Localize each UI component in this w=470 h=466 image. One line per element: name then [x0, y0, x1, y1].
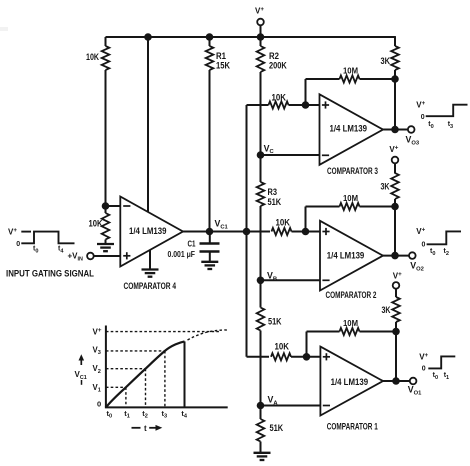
node comp2 feedback/pullup junction [391, 203, 399, 211]
wire comp2 output [383, 255, 409, 257]
svg-text:C1: C1 [188, 240, 196, 249]
label V3 (graph) [93, 345, 101, 356]
svg-text:15K: 15K [216, 60, 230, 70]
node junction rail/R1 [206, 33, 214, 41]
resistor R1 15K [206, 46, 214, 70]
wire 10M to 3K node (comp2) [360, 206, 396, 208]
wire V+ to 3K (comp1) [395, 289, 397, 297]
graph t4 vertical (discharge) [184, 341, 186, 407]
graph V+ dashed level [106, 331, 220, 333]
comp2 plus symbol [322, 228, 329, 235]
wire comp3 output [383, 129, 408, 131]
label t0 (waveform 3) [428, 121, 433, 130]
label 10M (comp1) [343, 319, 358, 328]
wire VC1 to 10K (comp2) [247, 231, 271, 233]
label V+ (comp1 pull-up) [393, 271, 402, 280]
wire 10M to 3K node (comp3) [360, 78, 396, 80]
svg-text:51K: 51K [270, 423, 284, 433]
wire VC1 to C1 [209, 232, 211, 244]
comp3 minus symbol [322, 154, 329, 156]
svg-text:51K: 51K [268, 317, 282, 327]
label 3K (comp1) [382, 305, 391, 315]
wire comp4 ground pin [149, 250, 151, 270]
resistor 10K (lower bias divider) [102, 213, 110, 240]
wire 3K to comp3 output [394, 70, 396, 130]
label 1/4 LM139 (comp1) [331, 377, 369, 388]
resistor 10M (comp1 feedback) [340, 328, 360, 335]
wire to 10M (comp1) [307, 331, 340, 333]
svg-text:COMPARATOR 4: COMPARATOR 4 [124, 281, 177, 292]
graph y-axis [105, 326, 107, 408]
label 0 (graph) [97, 400, 101, 409]
comp4 plus symbol [123, 252, 130, 259]
wire comp2 feedback riser [305, 207, 307, 232]
label t0 (waveform 1) [433, 372, 438, 381]
label 1/4 LM139 (comp3) [330, 124, 368, 135]
wire 10K lower to ground [105, 240, 107, 245]
node comp4 minus input junction [102, 202, 110, 210]
output terminal VO2 [409, 252, 416, 259]
wire 10K to comp1 plus [291, 356, 320, 358]
label 10M (comp3) [343, 67, 358, 76]
wire comp1 output [383, 380, 410, 382]
svg-text:1/4 LM139: 1/4 LM139 [129, 226, 167, 237]
wire R2 to node VC [260, 72, 262, 155]
label t0 (graph) [107, 409, 113, 420]
wire 10M to 3K node (comp1) [360, 331, 397, 333]
label 10K (comp2 input) [276, 218, 291, 228]
wire rail corner to 3K (comp3) [394, 36, 396, 46]
label 0 (waveform 2) [422, 242, 426, 249]
V+ terminal (comp2 pull-up) [392, 157, 399, 164]
node junction rail/R2/V+ terminal [257, 33, 265, 41]
svg-text:1/4 LM139: 1/4 LM139 [327, 251, 365, 262]
wire 10K to comp2 plus [292, 231, 321, 233]
node VC [257, 151, 265, 159]
wire comp4 output to VC1 bus [183, 231, 247, 233]
op-amp comparator 4 (1/4 LM139) [120, 197, 183, 267]
label V+ (waveform 3) [416, 100, 425, 109]
resistor 3K (comp2 pull-up) [391, 173, 399, 199]
svg-text:1/4 LM139: 1/4 LM139 [330, 124, 368, 135]
wire VC to R3 [260, 155, 262, 182]
label t4 (input waveform) [58, 246, 64, 255]
node VA [257, 402, 265, 410]
wire 51K to ground [260, 442, 262, 453]
label 10K (upper) [86, 52, 99, 62]
label 1/4 LM139 (comp4) [129, 226, 167, 237]
graph dashed curve extension [188, 330, 229, 340]
label VO1 [408, 385, 422, 397]
label t2 (waveform 2) [444, 248, 449, 257]
resistor 10K (upper bias divider) [102, 46, 110, 70]
svg-text:10K: 10K [272, 92, 287, 102]
ground (comparator 4) [142, 270, 159, 277]
label V+ (waveform 2) [416, 227, 425, 236]
label 51K (VA-GND) [270, 423, 284, 433]
ground (threshold chain) [254, 453, 271, 460]
comp1 minus symbol [323, 405, 330, 407]
wire bus corner to 10K (comp1) [247, 356, 270, 358]
label t0 (input waveform) [33, 246, 38, 255]
wire comp4 V+ supply pin [147, 37, 149, 212]
wire rail to 10K upper [105, 37, 107, 46]
resistor 3K (comp3 pull-up) [391, 46, 399, 70]
resistor 10K (comp2 input) [272, 228, 292, 235]
resistor 10K (comp1 input) [271, 353, 291, 360]
label t4 (graph) [181, 409, 188, 420]
svg-text:t: t [144, 424, 147, 433]
node VC1 [206, 228, 214, 236]
resistor 10M (comp2 feedback) [340, 203, 360, 210]
output waveform 2 [427, 231, 461, 244]
svg-text:3K: 3K [382, 305, 391, 315]
capacitor C1 0.001uF [200, 244, 220, 252]
label 0 (input waveform) [16, 241, 20, 248]
scan artifact (decorative) [0, 27, 8, 31]
wire VA to comp1 minus [261, 405, 321, 407]
label V+ (top) [255, 6, 264, 15]
op-amp comparator 2 (1/4 LM139) [320, 221, 383, 291]
wire VB to 51K [260, 280, 262, 307]
wire 10K to comp4 minus node [105, 70, 107, 206]
label 0 (waveform 1) [422, 366, 426, 373]
label V+ (waveform 1) [419, 352, 428, 361]
wire VB to comp2 minus [261, 279, 321, 281]
input terminal +VIN [87, 253, 94, 260]
label V+ (graph) [93, 327, 102, 336]
label t1 (graph) [124, 409, 130, 420]
graph t2 dashed vertical [145, 369, 147, 408]
label 3K (comp3) [381, 56, 391, 66]
label 3K (comp2) [381, 181, 390, 191]
label COMPARATOR 2 [326, 290, 377, 301]
label 10K (lower) [89, 219, 103, 229]
svg-text:1/4 LM139: 1/4 LM139 [331, 377, 369, 388]
label 1/4 LM139 (comp2) [327, 251, 365, 262]
label t0 (waveform 2) [430, 248, 435, 257]
node comp2 plus junction [302, 228, 310, 236]
label V+ (comp2 pull-up) [389, 145, 398, 154]
label C1 [188, 240, 196, 249]
graph x-axis [105, 406, 228, 408]
label t3 (graph) [162, 409, 168, 420]
label V1 (graph) [93, 383, 101, 394]
ground (bias divider) [97, 244, 114, 251]
wire R3 to node VB [260, 206, 262, 280]
wire comp1 feedback riser [306, 332, 308, 357]
wire C1 to ground [209, 252, 211, 262]
label COMPARATOR 1 [327, 422, 378, 433]
svg-text:COMPARATOR 1: COMPARATOR 1 [327, 422, 378, 433]
svg-text:COMPARATOR 3: COMPARATOR 3 [327, 166, 378, 177]
output terminal VO1 [410, 378, 417, 385]
label 10K (comp3 input) [272, 92, 287, 102]
svg-text:51K: 51K [268, 197, 282, 207]
label COMPARATOR 4 [124, 281, 177, 292]
wire to 10M (comp2) [306, 206, 340, 208]
wire 51K to node VA [260, 331, 262, 406]
svg-text:10M: 10M [343, 67, 358, 76]
graph t1 dashed vertical [125, 387, 127, 407]
label VO3 [406, 135, 420, 147]
svg-text:200K: 200K [269, 60, 287, 70]
resistor R2 200K [257, 46, 265, 72]
node comp2 output junction [391, 252, 399, 260]
wire VC1 bus vertical [246, 105, 248, 357]
label VC [264, 143, 275, 155]
graph y-axis arrow [79, 354, 85, 365]
wire bus corner to 10K (comp3) [247, 104, 269, 106]
output waveform 3 [426, 105, 468, 117]
label VC1 [215, 219, 229, 231]
node comp3 plus junction [302, 101, 310, 109]
svg-text:10K: 10K [275, 342, 290, 352]
svg-text:0: 0 [421, 114, 425, 121]
V+ supply terminal [257, 19, 264, 36]
wire rail to R1 [209, 37, 211, 46]
wire VC to comp3 minus [261, 154, 320, 156]
label V2 (graph) [93, 364, 101, 375]
wire V+ top rail [106, 36, 396, 38]
svg-text:10K: 10K [86, 52, 99, 62]
label VC1 (graph) [75, 370, 87, 381]
label R1 15K [216, 51, 230, 70]
node comp1 feedback/pullup junction [392, 328, 400, 336]
label 51K (VB-VA) [268, 317, 282, 327]
node comp3 feedback/pullup junction [391, 75, 399, 83]
node comp1 output junction [392, 377, 400, 385]
comp4 minus symbol [123, 205, 130, 207]
graph t-axis label [132, 424, 163, 433]
output terminal VO3 [408, 126, 415, 133]
label R3 51K [268, 187, 282, 207]
node junction bus/VC1 wire [243, 228, 251, 236]
label t2 (graph) [142, 409, 148, 420]
label 0.001 uF [168, 250, 196, 259]
wire to 10M (comp3) [306, 78, 340, 80]
svg-text:10K: 10K [89, 219, 103, 229]
node comp3 output junction [391, 126, 399, 134]
label t3 (waveform 3) [448, 121, 453, 130]
graph t3 dashed vertical [164, 351, 166, 408]
comp3 plus symbol [322, 101, 329, 108]
label R2 200K [269, 51, 287, 70]
wire +VIN to comp4 plus [94, 255, 121, 257]
op-amp comparator 1 (1/4 LM139) [320, 347, 383, 416]
label VA [268, 395, 279, 407]
wire 3K to comp1 output [395, 322, 397, 381]
resistor 51K (VB-VA) [257, 308, 265, 331]
graph V2 dashed level [106, 368, 146, 370]
svg-text:INPUT GATING SIGNAL: INPUT GATING SIGNAL [6, 268, 94, 278]
resistor 10K (comp3 input) [269, 101, 289, 108]
label 10M (comp2) [343, 194, 358, 203]
wire comp3 feedback riser [305, 79, 307, 105]
svg-text:0: 0 [16, 241, 20, 248]
wire node to 10K lower [105, 206, 107, 213]
output waveform 1 [428, 356, 455, 368]
svg-text:0.001 μF: 0.001 μF [168, 250, 196, 259]
label V+ (input waveform) [8, 227, 17, 236]
svg-text:3K: 3K [381, 181, 390, 191]
wire 3K to comp2 output [394, 199, 396, 256]
svg-text:0: 0 [422, 366, 426, 373]
label 0 (waveform 3) [421, 114, 425, 121]
input waveform V+ level dash [21, 231, 31, 233]
graph V1 dashed level [106, 386, 126, 388]
svg-text:3K: 3K [381, 56, 391, 66]
graph y-axis lower tick [81, 380, 83, 385]
label VO2 [410, 261, 424, 273]
wire minus node to comp4 [106, 205, 121, 207]
comp1 plus symbol [323, 353, 330, 360]
ground (C1) [201, 262, 218, 269]
comp2 minus symbol [322, 279, 329, 281]
resistor 51K (VA-GND) [257, 419, 265, 442]
label 10K (comp1 input) [275, 342, 290, 352]
graph V3 dashed level [106, 350, 165, 352]
input gating pulse waveform [21, 232, 74, 244]
op-amp comparator 3 (1/4 LM139) [320, 94, 384, 165]
svg-text:R3: R3 [268, 187, 278, 197]
wire R1 to VC1 node [209, 70, 211, 232]
resistor 10M (comp3 feedback) [340, 75, 360, 82]
svg-text:10M: 10M [343, 194, 358, 203]
label +VIN [68, 252, 84, 263]
wire 10K to comp3 plus [289, 104, 320, 106]
svg-text:COMPARATOR 2: COMPARATOR 2 [326, 290, 377, 301]
V+ terminal (comp1 pull-up) [393, 282, 400, 289]
svg-text:0: 0 [422, 242, 426, 249]
node VB [257, 277, 265, 285]
label t1 (waveform 1) [444, 372, 449, 381]
wire rail to R2 [260, 37, 262, 46]
wire V+ to 3K (comp2) [394, 163, 396, 173]
label VB [267, 271, 277, 283]
node junction rail/comp4 supply [144, 33, 152, 41]
resistor R3 51K [257, 182, 265, 206]
svg-text:0: 0 [97, 400, 101, 409]
node comp1 plus junction [303, 353, 311, 361]
svg-text:10M: 10M [343, 319, 358, 328]
resistor 3K (comp1 pull-up) [392, 297, 400, 322]
wire VA to 51K [260, 406, 262, 420]
label INPUT GATING SIGNAL [6, 268, 94, 278]
graph charging curve (solid) [106, 341, 185, 407]
svg-text:10K: 10K [276, 218, 291, 228]
label COMPARATOR 3 [327, 166, 378, 177]
